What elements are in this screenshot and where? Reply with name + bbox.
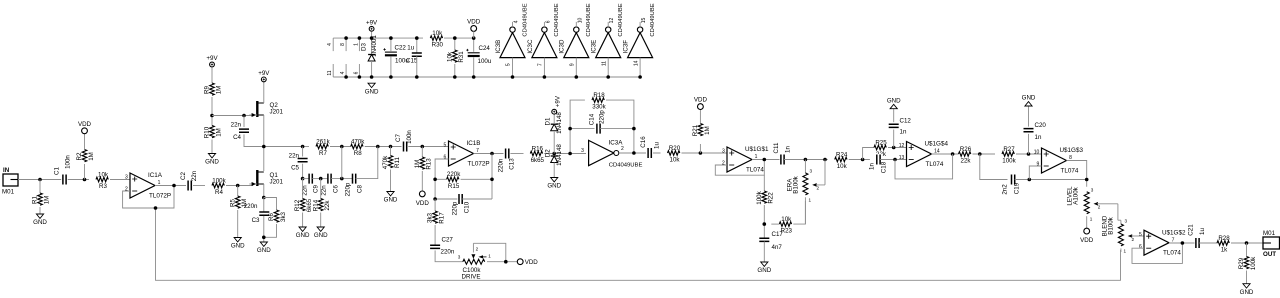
svg-text:VDD: VDD	[1080, 237, 1094, 244]
junction IC1A output	[172, 184, 176, 188]
svg-text:GND: GND	[757, 267, 771, 274]
junction cap row left	[301, 177, 305, 181]
resistor R8 470k	[351, 138, 366, 157]
capacitor C15 1u	[412, 53, 422, 56]
inverter IC3F CD4049UBE	[623, 3, 656, 77]
svg-text:GND: GND	[205, 159, 219, 166]
junction U$1G$4 output	[951, 152, 955, 156]
junction C8 right	[376, 145, 380, 149]
svg-text:1: 1	[809, 198, 812, 203]
svg-text:GND: GND	[887, 97, 901, 104]
junction C24 top	[472, 36, 476, 40]
junction Q1 source	[262, 196, 266, 200]
wire C7 to IC1B	[408, 146, 448, 148]
junction diodes	[552, 152, 556, 156]
wire bias to Q2 gate	[212, 115, 254, 117]
svg-text:GND: GND	[33, 219, 47, 226]
svg-text:6: 6	[444, 155, 447, 161]
label D2	[545, 144, 563, 166]
svg-text:2: 2	[817, 185, 820, 190]
junction R31 bottom	[453, 75, 457, 79]
junction C14 left	[568, 127, 572, 131]
inverter IC3E CD4049UBE	[591, 3, 624, 77]
svg-text:220n: 220n	[244, 203, 258, 210]
svg-text:2n2: 2n2	[1002, 184, 1009, 195]
svg-text:GND: GND	[547, 183, 561, 190]
svg-text:VDD: VDD	[78, 121, 92, 128]
wire +9V rail to VDD node	[444, 37, 474, 39]
wire R21 to VDD	[699, 109, 701, 123]
junction cap row mid	[340, 177, 344, 181]
svg-text:4: 4	[340, 71, 346, 74]
wire C9 to C6	[312, 178, 328, 180]
svg-text:R2: R2	[76, 152, 83, 160]
svg-text:2: 2	[621, 146, 624, 152]
ground symbol Q1 source network	[257, 242, 271, 254]
wire to R22	[763, 175, 765, 191]
wire to C20	[1028, 134, 1030, 154]
wire C8 to rail	[356, 147, 378, 179]
svg-text:VDD: VDD	[467, 19, 481, 26]
svg-text:1N4001: 1N4001	[371, 35, 378, 57]
svg-text:R24: R24	[836, 151, 848, 158]
op-amp IC1A TL072P	[125, 172, 171, 199]
junction R1	[38, 178, 42, 182]
ground symbol R29	[1240, 284, 1254, 296]
svg-text:10k: 10k	[446, 51, 453, 62]
wire C14 right	[600, 128, 634, 130]
junction C5 top	[301, 145, 305, 149]
connector M01 IN	[2, 167, 18, 196]
capacitor C7 100n	[395, 130, 413, 152]
svg-text:C6: C6	[333, 184, 340, 192]
capacitor C18 1n	[869, 154, 888, 173]
capacitor C20 1n	[1024, 122, 1047, 141]
wire to R13	[421, 147, 423, 158]
wire DRIVE wiper loop	[473, 243, 505, 261]
svg-text:+9V: +9V	[206, 55, 218, 62]
op-amp IC1B TL072P	[444, 140, 490, 167]
svg-text:GND: GND	[314, 232, 328, 239]
svg-text:6: 6	[545, 20, 551, 23]
svg-text:12: 12	[609, 18, 615, 24]
svg-text:11: 11	[601, 61, 607, 66]
junction pin9 tap	[1028, 178, 1032, 182]
svg-text:5: 5	[444, 143, 447, 149]
resistor R9 1M	[204, 83, 223, 95]
+9V supply clipper	[552, 95, 562, 114]
inverter IC3D CD4049UBE	[559, 3, 592, 77]
wire to C12	[893, 130, 895, 148]
wire C20 to ground	[1028, 106, 1030, 127]
connector pin 1 (top)	[353, 38, 359, 51]
wire U$1G$1 feedback	[715, 160, 764, 176]
wire C12 to ground	[893, 109, 895, 123]
svg-text:3: 3	[810, 168, 813, 173]
svg-text:M01: M01	[2, 189, 15, 196]
svg-text:CD4049UBE: CD4049UBE	[609, 162, 643, 168]
svg-text:IC3B: IC3B	[495, 40, 502, 54]
junction C22 top	[389, 36, 393, 40]
svg-text:4: 4	[327, 43, 333, 46]
svg-text:1N4148: 1N4148	[556, 144, 563, 166]
junction IC3A input	[568, 152, 572, 156]
wire R3 to IC1A	[110, 179, 130, 181]
wire U$1G$3 output	[1067, 161, 1087, 187]
capacitor C3 220n	[244, 203, 270, 224]
svg-text:R8: R8	[354, 150, 362, 157]
svg-text:1n: 1n	[900, 129, 907, 136]
svg-text:R29: R29	[1238, 257, 1245, 269]
capacitor C21 1u	[1188, 224, 1207, 249]
wire LEVEL to VDD	[1086, 216, 1088, 228]
resistor R5 1M	[229, 196, 248, 208]
junction C1/R2/R3	[83, 178, 87, 182]
wire input rail	[18, 179, 89, 181]
wire R20 to U$1G$1	[682, 152, 728, 154]
junction C14 right	[632, 127, 636, 131]
wire R28 to OUT	[1231, 242, 1263, 244]
inverter IC3A CD4049UBE	[581, 139, 642, 168]
resistor R7 261k	[316, 138, 331, 157]
svg-text:3: 3	[125, 175, 128, 181]
svg-text:R13: R13	[426, 158, 433, 170]
junction IC3A output	[632, 151, 636, 155]
svg-text:220p: 220p	[598, 110, 605, 124]
junction C4 top	[242, 114, 246, 118]
junction C12/pin12	[892, 146, 896, 150]
junction U$1G$1 output	[763, 158, 767, 162]
capacitor C8 220p	[353, 174, 356, 184]
junction R31 top	[453, 36, 457, 40]
op-amp U$1G$3 TL074	[1034, 147, 1084, 174]
svg-text:VDD: VDD	[525, 259, 539, 266]
junction R11	[389, 145, 393, 149]
svg-text:R20: R20	[669, 145, 681, 152]
resistor R11 470k	[382, 155, 401, 169]
ground symbol R14	[314, 227, 328, 239]
junction C24 bottom	[472, 75, 476, 79]
connector pin 4 (top)	[327, 38, 333, 51]
svg-text:1u: 1u	[654, 142, 661, 149]
svg-text:11: 11	[327, 70, 333, 75]
junction C20 tap	[1027, 152, 1031, 156]
svg-text:C5: C5	[291, 165, 299, 172]
junction R5	[236, 184, 240, 188]
svg-text:330k: 330k	[592, 104, 606, 111]
wire to C15	[416, 38, 418, 53]
svg-text:15: 15	[641, 18, 647, 24]
ground symbol C17	[757, 262, 771, 274]
svg-text:5: 5	[506, 63, 512, 66]
svg-text:1u: 1u	[407, 45, 414, 52]
wire Q2 source to Q1 drain	[263, 115, 265, 171]
connector M01 OUT	[1263, 230, 1280, 258]
svg-text:C27: C27	[442, 237, 454, 244]
svg-text:IC3A: IC3A	[609, 139, 624, 146]
wire feedback right	[606, 100, 634, 153]
wire R27 to pin10	[1016, 153, 1042, 155]
svg-text:5: 5	[1139, 232, 1142, 238]
svg-text:22n: 22n	[191, 170, 198, 181]
svg-text:R6: R6	[268, 212, 275, 220]
wire to D1	[553, 132, 555, 154]
potentiometer ERA B100k	[787, 160, 826, 203]
svg-text:4: 4	[514, 20, 520, 23]
svg-text:CD4049UBE: CD4049UBE	[554, 3, 560, 36]
resistor R12 6k65	[294, 198, 313, 212]
wire to C5	[302, 147, 304, 157]
svg-text:1M: 1M	[43, 196, 50, 205]
svg-text:R3: R3	[99, 183, 107, 190]
ground symbol power	[365, 83, 379, 95]
resistor R6 3k3	[268, 210, 287, 222]
svg-text:CD4049UBE: CD4049UBE	[522, 3, 528, 36]
junction R13	[421, 145, 425, 149]
svg-text:1n: 1n	[1035, 134, 1042, 141]
svg-text:10: 10	[1034, 150, 1040, 156]
wire to R12	[302, 179, 304, 199]
svg-text:J201: J201	[270, 108, 284, 115]
wire R23 to ERA pot	[793, 201, 805, 224]
wire C2 to R4	[193, 185, 205, 187]
resistor R23 10k	[779, 216, 792, 235]
svg-text:1M: 1M	[704, 126, 711, 135]
capacitor C22 100u	[383, 45, 418, 65]
svg-text:4n7: 4n7	[772, 244, 783, 251]
ground symbol R12	[296, 227, 310, 239]
wire +9V to R9	[211, 67, 213, 83]
wire IC1A output	[155, 185, 188, 187]
junction IC3F input	[638, 75, 642, 79]
wire to pin9	[1029, 166, 1041, 180]
svg-text:1M: 1M	[215, 86, 222, 95]
svg-text:+9V: +9V	[555, 95, 562, 107]
svg-text:TL074: TL074	[1163, 250, 1181, 257]
+9V supply symbol	[366, 19, 378, 31]
potentiometer LEVEL A100k	[1067, 186, 1118, 221]
wire ERA bottom to R23	[804, 197, 806, 224]
svg-text:U$1G$4: U$1G$4	[925, 141, 949, 148]
svg-text:C18: C18	[881, 161, 888, 173]
junction R15 left	[433, 178, 437, 182]
svg-text:U$1G$3: U$1G$3	[1060, 147, 1084, 154]
potentiometer DRIVE C100k	[458, 243, 492, 280]
potentiometer BLEND B100k	[1102, 215, 1145, 253]
wire IC1B inverting input	[435, 159, 448, 199]
wire DRIVE to VDD	[487, 261, 518, 263]
svg-text:1N4148: 1N4148	[556, 112, 563, 134]
svg-text:IC1A: IC1A	[148, 172, 163, 179]
capacitor C5 22n	[289, 153, 308, 172]
junction IC1B output	[490, 152, 494, 156]
wire to R6	[264, 198, 277, 211]
wire C19 to output	[1015, 179, 1087, 181]
resistor R30 10k	[430, 30, 443, 49]
junction IC3B input	[511, 75, 515, 79]
svg-text:R11: R11	[394, 157, 401, 168]
junction C3/R6	[262, 236, 266, 240]
svg-text:C8: C8	[357, 184, 364, 192]
junction IC3C input	[543, 75, 547, 79]
svg-text:R31: R31	[458, 51, 465, 63]
svg-text:C22: C22	[395, 45, 407, 52]
svg-text:2: 2	[476, 246, 479, 251]
svg-text:C1: C1	[54, 166, 61, 174]
svg-text:1M: 1M	[414, 160, 421, 169]
junction R9/R10	[210, 114, 214, 118]
svg-text:3: 3	[1125, 219, 1128, 224]
svg-text:R7: R7	[319, 150, 327, 157]
wire IC1A feedback	[123, 186, 174, 209]
wire U$1G$4 output	[932, 153, 959, 155]
wire to R11	[390, 147, 392, 156]
svg-text:1u: 1u	[1199, 228, 1206, 235]
wire to R5	[237, 186, 239, 197]
capacitor C14 220p	[597, 124, 600, 134]
svg-text:9: 9	[1037, 162, 1040, 168]
wire R29 to ground	[1246, 271, 1248, 284]
junction C19 tap	[978, 152, 982, 156]
resistor R24 10k	[835, 151, 848, 170]
svg-text:22k: 22k	[324, 200, 331, 211]
svg-text:10k: 10k	[837, 163, 848, 170]
svg-text:TL072P: TL072P	[468, 160, 490, 167]
svg-text:100k: 100k	[756, 190, 763, 204]
VDD supply R21	[694, 97, 708, 110]
wire R10 to ground	[211, 140, 213, 154]
svg-text:TL074: TL074	[746, 166, 764, 173]
VDD supply DRIVE	[517, 259, 538, 266]
inverter IC3C CD4049UBE	[527, 3, 560, 77]
junction R14	[319, 177, 323, 181]
connector pin 8 (top)	[340, 38, 346, 51]
svg-text:B100k: B100k	[1108, 216, 1115, 234]
resistor R29 100k	[1238, 256, 1257, 270]
svg-text:C14: C14	[589, 113, 596, 125]
ground symbol D2	[547, 178, 561, 190]
wire Q1 source	[263, 184, 265, 198]
svg-text:R23: R23	[781, 228, 793, 235]
svg-text:100u: 100u	[478, 58, 492, 65]
svg-text:C21: C21	[1188, 224, 1195, 236]
capacitor C13 220n	[498, 148, 516, 172]
svg-text:100k: 100k	[212, 177, 226, 184]
resistor R13 1M	[414, 157, 433, 170]
label D1	[545, 112, 563, 134]
wire to R17	[434, 199, 436, 211]
capacitor C4 22n	[231, 122, 249, 142]
svg-text:3k3: 3k3	[280, 211, 287, 222]
svg-text:6k65: 6k65	[531, 157, 545, 164]
wire C21 to R28	[1199, 242, 1218, 244]
junction feedback tap	[893, 158, 897, 162]
wire U$1G$2 output	[1169, 242, 1195, 244]
svg-text:220p: 220p	[345, 182, 352, 196]
svg-text:C15: C15	[406, 57, 418, 64]
wire D3 to ground rail	[371, 61, 373, 77]
svg-text:8: 8	[340, 43, 346, 46]
wire to C9	[303, 178, 309, 180]
svg-text:6: 6	[1139, 244, 1142, 250]
svg-text:VDD: VDD	[416, 200, 430, 207]
svg-text:IN: IN	[3, 167, 10, 174]
wire R17 to C27	[434, 225, 436, 245]
wire R8 to C7	[365, 146, 403, 148]
resistor R28 1k	[1217, 235, 1230, 254]
svg-text:13: 13	[899, 155, 905, 161]
junction IC3E input	[606, 75, 610, 79]
svg-text:+9V: +9V	[258, 70, 270, 77]
wire BLEND bottom	[1120, 248, 1122, 252]
wire R12 to ground	[302, 213, 304, 228]
wire ground rail	[333, 76, 640, 78]
svg-text:12: 12	[899, 143, 905, 149]
svg-text:C19: C19	[1014, 182, 1021, 194]
wire R1 to ground	[39, 207, 41, 214]
svg-text:U$1G$2: U$1G$2	[1162, 229, 1186, 236]
svg-text:10k: 10k	[781, 216, 792, 223]
svg-text:R26: R26	[960, 146, 972, 153]
ground symbol R1	[33, 214, 47, 226]
svg-text:GND: GND	[296, 232, 310, 239]
svg-text:7: 7	[538, 63, 544, 66]
svg-text:C16: C16	[640, 136, 647, 148]
svg-text:C9: C9	[313, 184, 320, 192]
wire Q2 drain to +9V	[263, 82, 265, 103]
capacitor C17 4n7	[759, 231, 783, 251]
svg-text:3: 3	[581, 148, 584, 154]
svg-text:6: 6	[353, 71, 359, 74]
svg-text:100n: 100n	[406, 130, 413, 144]
capacitor C19 2n2	[1012, 175, 1015, 185]
capacitor C16 1u	[640, 136, 661, 159]
svg-text:100k: 100k	[1002, 158, 1016, 165]
svg-text:R28: R28	[1218, 235, 1230, 242]
svg-text:C2: C2	[180, 171, 187, 179]
junction Q1 drain	[262, 145, 266, 149]
ground symbol C20	[1022, 95, 1036, 106]
svg-text:1M: 1M	[215, 128, 222, 137]
svg-text:220n: 220n	[498, 158, 505, 172]
wire R13 to VDD	[421, 171, 423, 191]
capacitor C12 1n	[889, 118, 912, 136]
svg-text:22n: 22n	[231, 122, 242, 129]
svg-text:9: 9	[570, 63, 576, 66]
svg-text:GND: GND	[257, 247, 271, 254]
resistor R17 3k3	[427, 211, 446, 224]
svg-text:2: 2	[1132, 237, 1135, 242]
svg-text:C11: C11	[773, 142, 780, 153]
svg-text:R12: R12	[294, 199, 301, 211]
wire R25 to pin12	[888, 147, 907, 149]
resistor R21 1M	[692, 124, 711, 137]
wire C22 to ground rail	[390, 57, 392, 77]
resistor R25 22k	[874, 139, 887, 158]
wire U$1G$4 feedback	[895, 154, 953, 179]
diode D1 1N4148	[551, 124, 558, 131]
svg-text:2: 2	[1098, 204, 1101, 209]
svg-text:10k: 10k	[670, 157, 681, 164]
svg-text:M01: M01	[1263, 230, 1276, 237]
wire C4 to drain rail	[244, 134, 303, 146]
inverter IC3B CD4049UBE	[495, 3, 528, 77]
junction C6/C8 tap	[340, 145, 344, 149]
wire R24 to C18	[849, 159, 870, 161]
svg-text:GND: GND	[365, 88, 379, 95]
resistor R20 10k	[668, 145, 681, 164]
VDD supply LEVEL	[1080, 228, 1094, 244]
